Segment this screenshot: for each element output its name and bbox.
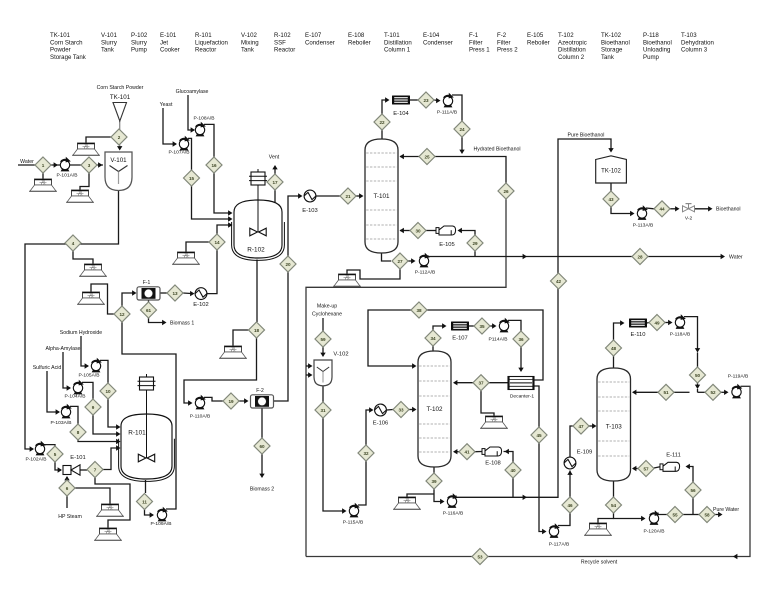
- wire decanter recycle 38: [368, 310, 543, 380]
- svg-text:Jet: Jet: [160, 39, 168, 46]
- node 27 (stream diamond): [392, 253, 408, 269]
- node 43 (stream diamond): [603, 191, 619, 207]
- svg-text:28: 28: [637, 254, 643, 259]
- svg-text:Corn Starch Powder: Corn Starch Powder: [97, 85, 144, 91]
- wire reflux to 25: [435, 156, 462, 158]
- node 1 (stream diamond): [35, 157, 51, 173]
- wire junction to 52: [698, 391, 706, 393]
- node 42 (stream diamond): [551, 273, 567, 289]
- svg-text:49: 49: [654, 320, 660, 325]
- node 48 (stream diamond): [606, 340, 622, 356]
- wire 30 to T-101: [400, 230, 410, 232]
- svg-text:Glucoamylase: Glucoamylase: [176, 89, 209, 95]
- pump P-116A/B: [447, 493, 458, 508]
- wire decanter to P-117: [534, 386, 545, 532]
- pump P-113A/B: [637, 205, 648, 220]
- wire 58 to pure water: [699, 514, 721, 516]
- node 13 (stream diamond): [167, 285, 183, 301]
- svg-text:Pump: Pump: [643, 54, 660, 61]
- stream data flag 5: [77, 292, 105, 304]
- svg-text:P-108A/B: P-108A/B: [194, 116, 215, 122]
- svg-text:29: 29: [472, 241, 478, 246]
- node 23 (stream diamond): [418, 92, 434, 108]
- reactor R-102: [232, 169, 285, 260]
- svg-text:F-1: F-1: [143, 280, 151, 286]
- wire R-102 bottoms: [256, 260, 258, 323]
- svg-text:Liquefaction: Liquefaction: [195, 39, 228, 46]
- stream data flag 9: [219, 346, 247, 358]
- wire TK-101 to V-101: [119, 121, 121, 149]
- node 33 (stream diamond): [393, 402, 409, 418]
- svg-text:40: 40: [510, 468, 516, 473]
- svg-text:3: 3: [88, 163, 91, 168]
- svg-text:Storage Tank: Storage Tank: [50, 54, 87, 61]
- node 50 (stream diamond): [690, 367, 706, 383]
- svg-text:4: 4: [72, 241, 75, 246]
- svg-text:P-109A/B: P-109A/B: [151, 521, 172, 527]
- svg-text:Tank: Tank: [601, 54, 615, 61]
- node 16 (stream diamond): [206, 157, 222, 173]
- svg-text:E-104: E-104: [423, 32, 440, 39]
- svg-text:E-111: E-111: [666, 453, 681, 459]
- wire P-114 outlet: [508, 320, 521, 331]
- wire 33 to T-102: [409, 409, 415, 411]
- wire hydrated bioethanol loop: [306, 199, 506, 557]
- svg-text:47: 47: [578, 424, 584, 429]
- wire F-2 to E-103: [274, 196, 301, 401]
- stream data flag 13: [584, 523, 612, 535]
- wire 7 to R-101: [103, 448, 119, 470]
- svg-text:P-107A/B: P-107A/B: [169, 150, 190, 156]
- pump P-119A/B: [732, 384, 743, 399]
- wire junction to 56: [692, 498, 694, 515]
- wire flag-14 elbow: [186, 242, 209, 252]
- svg-text:F-2: F-2: [256, 388, 264, 394]
- wire 22 to E-104: [382, 100, 388, 114]
- wire P-103 outlet: [70, 406, 78, 424]
- wire P-110 to F-2: [204, 397, 247, 401]
- wire F-1 solids: [148, 300, 150, 302]
- wire 61 biomass: [149, 318, 166, 323]
- pump P-108A/B: [195, 122, 206, 137]
- wire 16 to R-102: [214, 173, 231, 213]
- svg-text:20: 20: [285, 262, 291, 267]
- node 26 (stream diamond): [498, 183, 514, 199]
- node 25 (stream diamond): [419, 149, 435, 165]
- svg-text:2: 2: [118, 135, 121, 140]
- wire V-102 inlet 1: [306, 365, 311, 367]
- filter press F-1: [137, 287, 160, 300]
- wire 34 to E-107: [433, 326, 445, 330]
- node 57 (stream diamond): [638, 461, 654, 477]
- svg-text:F-2: F-2: [497, 32, 507, 39]
- svg-text:Biomass 1: Biomass 1: [170, 321, 194, 327]
- svg-text:Column 1: Column 1: [384, 47, 411, 54]
- node 44 (stream diamond): [654, 201, 670, 217]
- svg-text:F-1: F-1: [469, 32, 479, 39]
- pump P-111A/B: [443, 93, 454, 108]
- wire 24 down: [461, 137, 463, 153]
- node 20 (stream diamond): [280, 256, 296, 272]
- node 30 (stream diamond): [410, 223, 426, 239]
- wire 37 to T-102: [454, 382, 473, 384]
- svg-text:E-107: E-107: [452, 336, 467, 342]
- svg-text:Filter: Filter: [497, 39, 511, 46]
- wire E-106 to 33: [387, 409, 393, 412]
- svg-text:Unloading: Unloading: [643, 47, 670, 54]
- svg-text:18: 18: [254, 328, 260, 333]
- svg-text:45: 45: [536, 433, 542, 438]
- svg-text:Pure Water: Pure Water: [713, 507, 739, 513]
- svg-text:19: 19: [228, 399, 234, 404]
- svg-text:R-102: R-102: [247, 247, 265, 254]
- svg-text:21: 21: [345, 194, 351, 199]
- wire HP steam: [66, 496, 68, 508]
- wire R-101 bottoms: [145, 480, 147, 493]
- svg-text:16: 16: [211, 163, 217, 168]
- svg-text:P-115A/B: P-115A/B: [343, 520, 364, 526]
- svg-text:R-101: R-101: [195, 32, 212, 39]
- svg-text:Condenser: Condenser: [423, 39, 453, 46]
- svg-text:55: 55: [672, 512, 678, 517]
- node 61 (stream diamond): [141, 302, 157, 318]
- svg-text:Powder: Powder: [50, 47, 71, 54]
- svg-text:E-101: E-101: [70, 455, 85, 461]
- svg-text:38: 38: [416, 308, 422, 313]
- wire T-103 overhead: [613, 356, 615, 368]
- node 6 (stream diamond): [59, 480, 75, 496]
- svg-text:43: 43: [608, 197, 614, 202]
- stream data flag 4: [79, 264, 107, 276]
- svg-text:53: 53: [477, 554, 483, 559]
- wire TK-102 outlet: [610, 183, 612, 191]
- wire P-109 riser: [122, 322, 176, 509]
- svg-text:Biomass 2: Biomass 2: [250, 487, 274, 493]
- legend header: [50, 32, 714, 61]
- heat exchanger E-103: [304, 190, 316, 202]
- wire 21 to T-101: [356, 195, 362, 197]
- svg-text:57: 57: [643, 466, 649, 471]
- wire flag-54 elbow: [598, 519, 614, 524]
- wire flag-7 elbow: [95, 478, 130, 529]
- node 11 (stream diamond): [137, 494, 153, 510]
- wire decanter to 37: [489, 382, 508, 384]
- svg-text:Mixing: Mixing: [241, 39, 259, 46]
- tank V-102: [314, 352, 349, 386]
- condenser E-110: [629, 319, 647, 328]
- svg-text:P-111A/B: P-111A/B: [437, 110, 457, 116]
- svg-text:Decanter-1: Decanter-1: [510, 394, 534, 400]
- wire E-110 to 49: [647, 322, 649, 325]
- svg-text:E-103: E-103: [302, 208, 317, 214]
- svg-text:61: 61: [146, 308, 152, 313]
- wire glucoamylase: [188, 95, 194, 130]
- node 58 (stream diamond): [699, 507, 715, 523]
- pump P-117A/B: [549, 523, 560, 538]
- wire P-105 outlet: [100, 360, 108, 383]
- pump P-109A/B: [157, 507, 168, 522]
- svg-text:Storage: Storage: [601, 47, 623, 54]
- stream data flag 10: [333, 274, 361, 286]
- node 45 (stream diamond): [531, 427, 547, 443]
- wire flag-1 stem: [42, 173, 44, 179]
- wire 9 to R-101: [93, 415, 119, 434]
- node 21 (stream diamond): [340, 188, 356, 204]
- svg-text:Condenser: Condenser: [305, 39, 335, 46]
- svg-text:39: 39: [431, 479, 437, 484]
- svg-text:T-101: T-101: [384, 32, 400, 39]
- reboiler E-105: [436, 226, 456, 235]
- heat exchanger E-109: [564, 457, 576, 469]
- node 9 (stream diamond): [85, 399, 101, 415]
- svg-text:35: 35: [479, 324, 485, 329]
- svg-text:Cyclohexane: Cyclohexane: [312, 312, 342, 318]
- svg-text:V-102: V-102: [241, 32, 258, 39]
- wire P-118 outlet: [684, 317, 698, 351]
- svg-text:T-102: T-102: [558, 32, 574, 39]
- wire 23 to P-111: [434, 99, 439, 102]
- decanter Decanter-1: [508, 377, 534, 390]
- pump P-102A/B: [35, 441, 46, 456]
- wire 46 to E-109: [569, 471, 571, 498]
- svg-text:60: 60: [259, 444, 265, 449]
- svg-text:6: 6: [66, 486, 69, 491]
- node 55 (stream diamond): [667, 507, 683, 523]
- node 38 (stream diamond): [411, 302, 427, 318]
- node 41 (stream diamond): [459, 444, 475, 460]
- svg-text:T-103: T-103: [681, 32, 697, 39]
- svg-text:31: 31: [320, 408, 326, 413]
- node 49 (stream diamond): [649, 315, 665, 331]
- node 19 (stream diamond): [223, 393, 239, 409]
- svg-text:R-101: R-101: [128, 430, 146, 437]
- svg-text:56: 56: [690, 488, 696, 493]
- svg-text:Bioethanol: Bioethanol: [716, 207, 741, 213]
- svg-text:23: 23: [423, 98, 429, 103]
- svg-text:Water: Water: [729, 255, 743, 261]
- node 31 (stream diamond): [315, 402, 331, 418]
- svg-text:V-101: V-101: [101, 32, 118, 39]
- svg-text:Recycle solvent: Recycle solvent: [581, 560, 618, 566]
- svg-text:Corn Starch: Corn Starch: [50, 39, 83, 46]
- filter press F-2: [251, 395, 274, 408]
- wire 60 biomass: [261, 454, 263, 476]
- node 22 (stream diamond): [374, 114, 390, 130]
- tank TK-102: [596, 156, 627, 183]
- wire water feed: [18, 164, 103, 166]
- svg-text:E-104: E-104: [393, 111, 409, 117]
- node 39 (stream diamond): [426, 473, 442, 489]
- wire 47 to T-103: [589, 425, 595, 427]
- svg-text:7: 7: [94, 467, 97, 472]
- svg-text:P-116A/B: P-116A/B: [443, 511, 464, 517]
- pump P-112A/B: [419, 253, 430, 268]
- svg-text:SSF: SSF: [274, 39, 286, 46]
- reboiler E-111: [660, 462, 680, 471]
- svg-text:Press 1: Press 1: [469, 47, 490, 54]
- svg-text:V-2: V-2: [685, 216, 693, 222]
- svg-text:Cooker: Cooker: [160, 47, 180, 54]
- svg-text:Reboiler: Reboiler: [527, 39, 550, 46]
- svg-text:P-102: P-102: [131, 32, 148, 39]
- svg-text:Press 2: Press 2: [497, 47, 518, 54]
- node 29 (stream diamond): [467, 235, 483, 251]
- node 56 (stream diamond): [685, 482, 701, 498]
- svg-text:E-108: E-108: [348, 32, 365, 39]
- svg-text:Alpha-Amylase: Alpha-Amylase: [46, 346, 81, 352]
- svg-text:Vent: Vent: [269, 155, 280, 161]
- svg-text:E-109: E-109: [577, 450, 592, 456]
- column T-102: [418, 351, 451, 467]
- wire 29 to E-105: [459, 231, 475, 237]
- svg-text:Filter: Filter: [469, 39, 483, 46]
- svg-text:V-101: V-101: [110, 157, 127, 164]
- svg-text:E-102: E-102: [193, 302, 208, 308]
- wire pure bioethanol riser: [456, 139, 611, 497]
- svg-text:Reactor: Reactor: [195, 47, 216, 54]
- wire P-104 outlet: [82, 382, 93, 399]
- pump P-115A/B: [349, 503, 360, 518]
- svg-text:TK-101: TK-101: [50, 32, 71, 39]
- svg-text:E-107: E-107: [305, 32, 322, 39]
- svg-text:Slurry: Slurry: [101, 39, 118, 46]
- svg-text:Azeotropic: Azeotropic: [558, 39, 587, 46]
- svg-text:30: 30: [415, 228, 421, 233]
- svg-text:E-105: E-105: [439, 242, 454, 248]
- svg-text:V-102: V-102: [333, 352, 348, 358]
- node 40 (stream diamond): [505, 462, 521, 478]
- svg-text:P-117A/B: P-117A/B: [549, 542, 570, 548]
- svg-text:36: 36: [518, 337, 524, 342]
- wire 15 to R-102: [192, 186, 232, 219]
- wire V-102 inlet 2: [306, 374, 311, 376]
- wire P-115 outlet: [358, 461, 366, 505]
- stream data flag 6: [172, 252, 200, 264]
- wire sodium hydroxide: [81, 336, 88, 366]
- node 53 (stream diamond): [472, 549, 488, 565]
- svg-text:13: 13: [172, 291, 178, 296]
- svg-text:1: 1: [42, 163, 45, 168]
- hopper TK-101: [113, 103, 127, 122]
- node 18 (stream diamond): [249, 322, 265, 338]
- svg-text:42: 42: [556, 279, 562, 284]
- svg-text:P-118A/B: P-118A/B: [670, 332, 691, 338]
- svg-text:E-105: E-105: [527, 32, 544, 39]
- wire 10 to R-101: [108, 399, 119, 427]
- pump P-120A/B: [649, 510, 660, 525]
- wire P-102 outlet: [44, 445, 55, 447]
- wire flag-3 elbow: [80, 173, 89, 190]
- wire E-104 to 23: [410, 99, 418, 101]
- svg-text:R-102: R-102: [274, 32, 291, 39]
- svg-text:Tank: Tank: [241, 47, 255, 54]
- svg-text:Pump: Pump: [131, 47, 148, 54]
- wire V-101 to P-102: [25, 190, 119, 449]
- wire P-107 outlet: [188, 138, 192, 170]
- svg-text:Bioethanol: Bioethanol: [601, 39, 630, 46]
- svg-text:TK-102: TK-102: [601, 169, 621, 175]
- svg-text:P-103A/B: P-103A/B: [51, 420, 72, 426]
- stream data flag 3: [66, 190, 94, 202]
- column T-103: [597, 368, 631, 481]
- wire 29 stem: [474, 249, 476, 257]
- wire 56 to E-111: [687, 467, 693, 483]
- wire 25 to T-101: [400, 156, 419, 158]
- wire F-2 solids: [261, 408, 263, 438]
- svg-text:E-108: E-108: [485, 461, 500, 467]
- pump P-118A/B: [675, 314, 686, 329]
- svg-text:T-102: T-102: [426, 406, 443, 413]
- svg-text:P-120A/B: P-120A/B: [644, 529, 665, 535]
- svg-text:10: 10: [105, 389, 111, 394]
- pump P-104A/B: [73, 380, 84, 395]
- svg-text:59: 59: [320, 337, 326, 342]
- wire 57 to T-103: [633, 468, 638, 470]
- wire E-108 to 41: [475, 451, 482, 453]
- node 46 (stream diamond): [562, 497, 578, 513]
- svg-text:Distillation: Distillation: [384, 39, 412, 46]
- stream data flag 1: [72, 143, 100, 155]
- svg-text:Hydrated Bioethanol: Hydrated Bioethanol: [473, 147, 520, 153]
- node 35 (stream diamond): [474, 318, 490, 334]
- wire 12 to F-1: [122, 293, 135, 306]
- wire 27 to P-112: [408, 260, 414, 262]
- valve V-2: [683, 204, 695, 222]
- svg-text:P-105A/B: P-105A/B: [79, 373, 100, 379]
- node 2 (stream diamond): [111, 129, 127, 145]
- svg-text:Column 3: Column 3: [681, 47, 708, 54]
- svg-text:11: 11: [142, 499, 147, 504]
- ejector E-101: [63, 455, 86, 475]
- node 17 (stream diamond): [267, 174, 283, 190]
- node 52 (stream diamond): [705, 384, 721, 400]
- wire 55 to junction: [683, 514, 699, 516]
- wire F-1 to 13: [160, 292, 167, 294]
- pump P-107A/B: [179, 136, 190, 151]
- wire 50 junction: [697, 389, 699, 392]
- wire to 26: [462, 157, 506, 184]
- svg-text:P-112A/B: P-112A/B: [415, 270, 436, 276]
- wire 6 to E-101: [66, 477, 68, 480]
- wire 49 to P-118: [665, 322, 671, 324]
- wire yeast: [163, 108, 176, 144]
- wire 54 to P-120: [614, 513, 645, 519]
- stream data flag 7: [96, 504, 124, 516]
- svg-text:E-101: E-101: [160, 32, 177, 39]
- wire T-102 bottoms: [433, 467, 435, 473]
- node 59 (stream diamond): [315, 331, 331, 347]
- node 36 (stream diamond): [513, 331, 529, 347]
- condenser E-104: [392, 96, 410, 105]
- node 28 (stream diamond): [632, 249, 648, 265]
- wire 39 to P-116: [434, 489, 443, 502]
- wire E-109 to 47: [570, 426, 573, 457]
- svg-text:E-110: E-110: [630, 332, 645, 338]
- wire 13 to E-102: [183, 292, 193, 295]
- node 10 (stream diamond): [100, 383, 116, 399]
- wire flag-37 elbow: [481, 391, 494, 416]
- wire 41 to T-102: [454, 451, 459, 453]
- wire 59 to V-102: [322, 347, 324, 356]
- stream data flag 12: [480, 416, 508, 428]
- pump P-103A/B: [61, 404, 72, 419]
- reactor R-101: [119, 374, 175, 481]
- wire 44 to V-2: [670, 208, 678, 210]
- wire T-103 bottoms: [613, 481, 615, 497]
- node 24 (stream diamond): [454, 121, 470, 137]
- wire 5 to E-101: [55, 462, 61, 470]
- svg-text:Reactor: Reactor: [274, 47, 295, 54]
